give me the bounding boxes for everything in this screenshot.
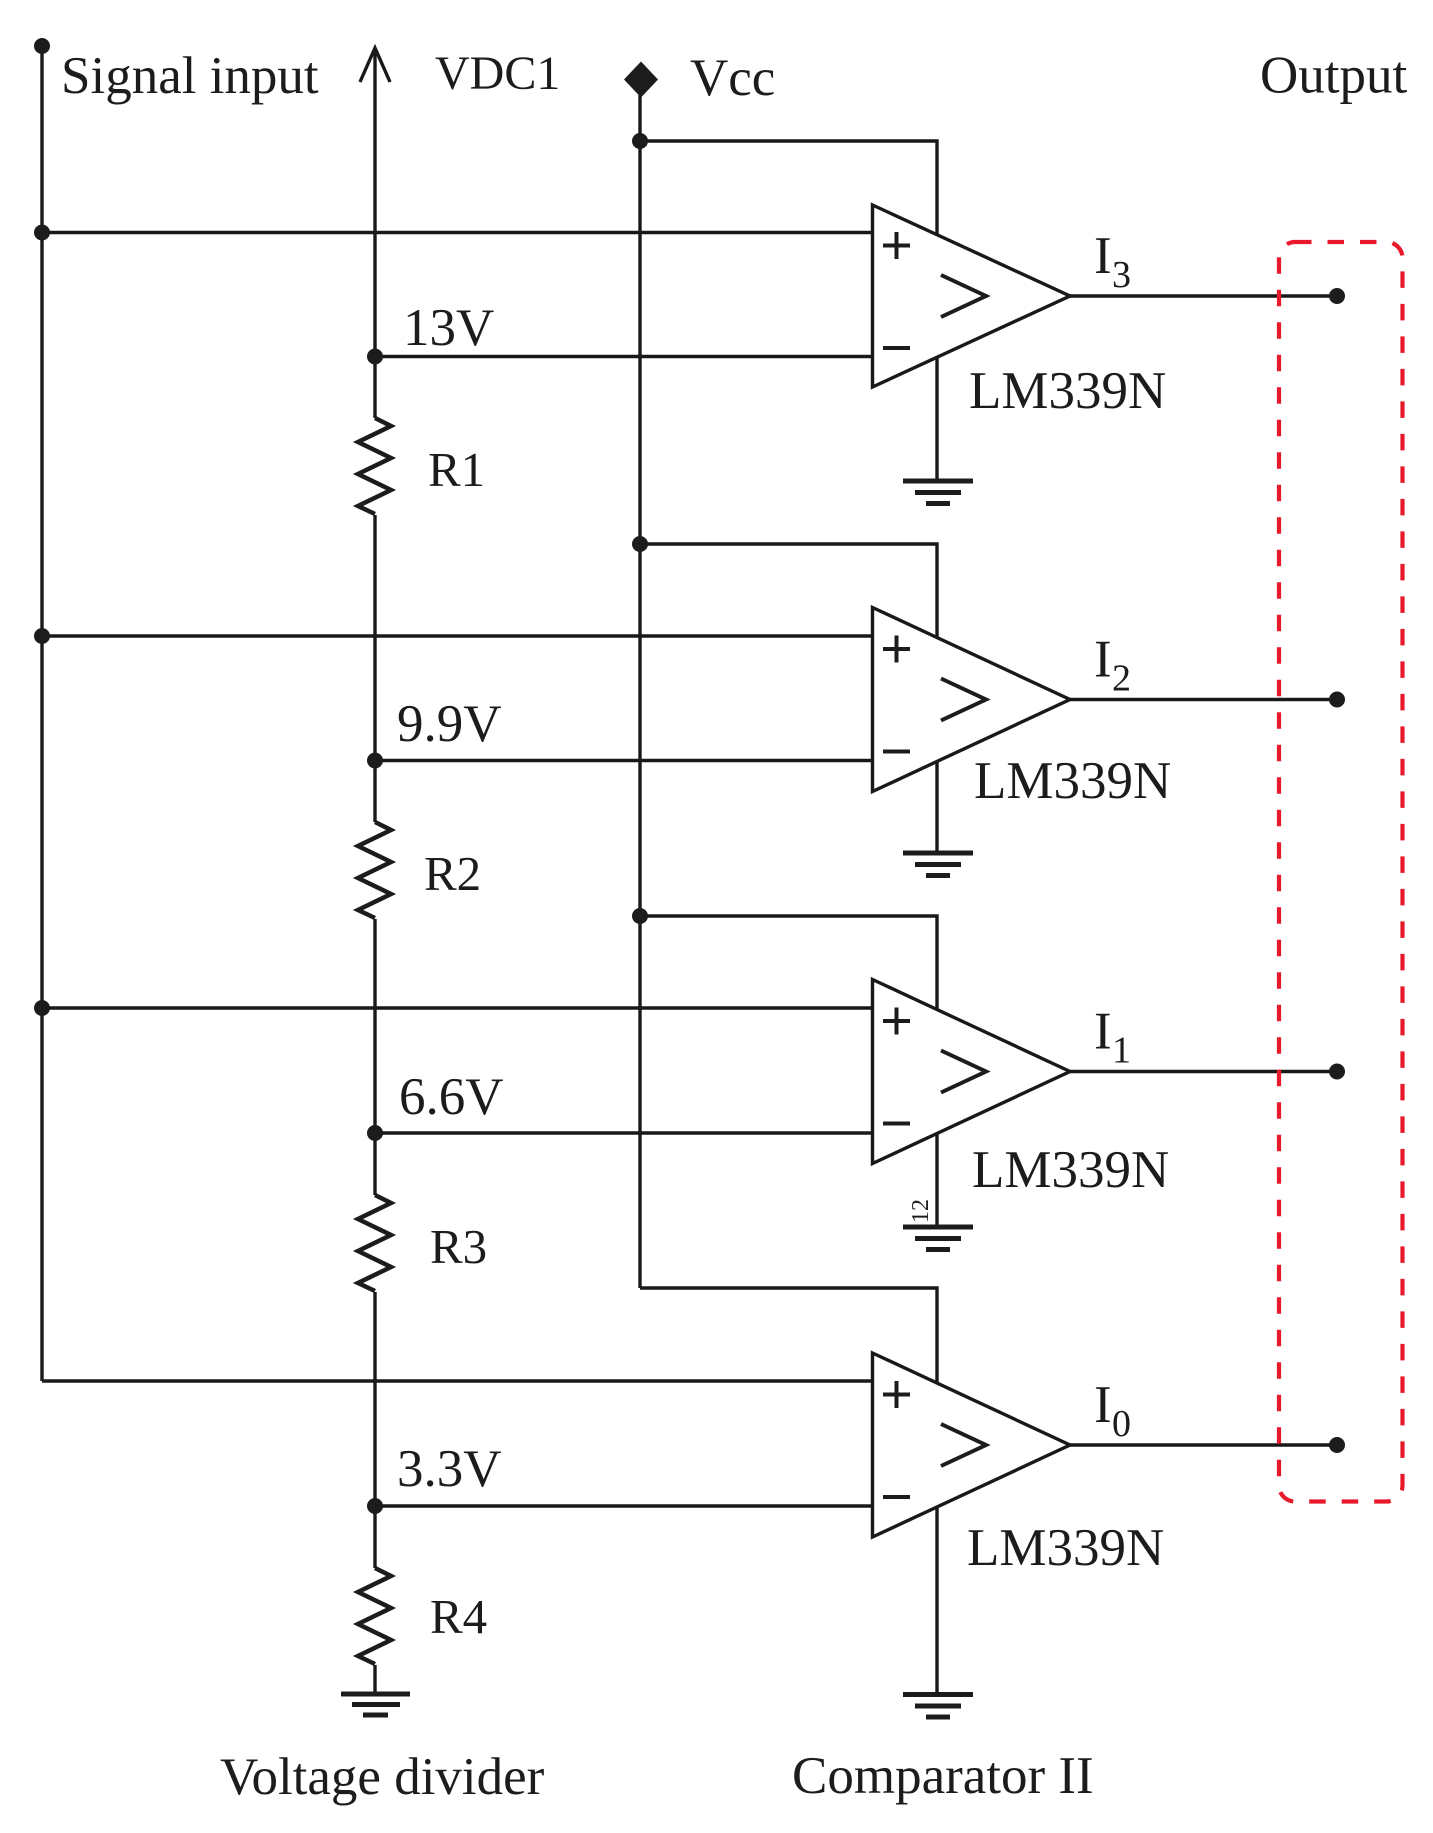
wire node 3.3V to U4 - input [375, 1504, 873, 1507]
svg-text:Output: Output [1260, 47, 1408, 105]
node junction Vcc/U2 [632, 536, 648, 552]
wire divider R2-R3 segment [373, 919, 376, 1195]
wire U4 output [1070, 1443, 1337, 1446]
op-amp U2 + pin mark [883, 636, 910, 663]
svg-text:I: I [1094, 631, 1112, 689]
node junction Vcc/U1 [632, 133, 648, 149]
svg-text:VDC1: VDC1 [435, 47, 560, 100]
svg-text:LM339N: LM339N [972, 1141, 1169, 1199]
wire Vcc branch to U2 power [640, 544, 937, 637]
svg-text:LM339N: LM339N [974, 752, 1171, 810]
wire signal to comparator U4 + input [42, 1379, 873, 1382]
resistor R1 [358, 418, 391, 514]
op-amp U2 comparator chevron [941, 679, 986, 721]
wire U4 ground stem [935, 1508, 938, 1695]
svg-text:LM339N: LM339N [967, 1519, 1164, 1577]
svg-text:3.3V: 3.3V [397, 1440, 502, 1498]
svg-text:I: I [1094, 1003, 1112, 1061]
node 9.9V junction [367, 753, 383, 769]
node junction signal/U3+ [34, 1000, 50, 1016]
wire U2 output [1070, 698, 1337, 701]
arrowhead VDC1 [360, 48, 390, 82]
svg-text:LM339N: LM339N [969, 362, 1166, 420]
node 3.3V junction [367, 1498, 383, 1514]
wire divider top segment with VDC1 arrow shaft [373, 48, 376, 418]
op-amp U4 - pin mark [883, 1495, 910, 1499]
svg-text:R3: R3 [430, 1219, 487, 1274]
wire divider R1-R2 segment [373, 515, 376, 822]
svg-text:0: 0 [1112, 1403, 1131, 1445]
svg-text:R1: R1 [428, 442, 485, 497]
op-amp U3 comparator chevron [941, 1051, 986, 1093]
svg-text:Voltage divider: Voltage divider [220, 1748, 545, 1806]
svg-text:6.6V: 6.6V [399, 1068, 504, 1126]
op-amp U3 (LM339N, I1) triangle [873, 980, 1071, 1164]
resistor R2 [358, 822, 391, 918]
node output I2 terminal [1329, 692, 1345, 708]
svg-text:I: I [1094, 227, 1112, 285]
node junction signal/U1+ [34, 225, 50, 241]
wire U1 output [1070, 294, 1337, 297]
wire Vcc branch to U4 power [640, 1288, 937, 1383]
ground R4 (divider) [341, 1694, 410, 1715]
svg-text:2: 2 [1112, 658, 1131, 700]
svg-text:3: 3 [1112, 254, 1131, 296]
svg-text:Vcc: Vcc [690, 49, 775, 107]
wire divider R3-R4 segment [373, 1292, 376, 1568]
wire signal to comparator U1 + input [42, 231, 873, 234]
op-amp U1 (LM339N, I3) triangle [873, 205, 1071, 387]
wire Vcc branch to U1 power [640, 141, 937, 235]
resistor R3 [358, 1195, 391, 1291]
output group red dashed box [1279, 242, 1403, 1502]
svg-text:R2: R2 [424, 846, 481, 901]
node junction Vcc/U3 [632, 908, 648, 924]
op-amp U4 (LM339N, I0) triangle [873, 1353, 1071, 1537]
node Vcc supply diamond [624, 62, 658, 98]
wire node 13V to U1 - input [375, 355, 873, 358]
wire signal-input vertical bus [40, 46, 43, 1381]
svg-text:Signal input: Signal input [61, 47, 319, 105]
svg-text:1: 1 [1112, 1030, 1131, 1072]
node signal input terminal [34, 38, 50, 54]
svg-text:I: I [1094, 1376, 1112, 1434]
wire node 9.9V to U2 - input [375, 759, 873, 762]
svg-text:R4: R4 [430, 1589, 487, 1644]
wire signal to comparator U3 + input [42, 1006, 873, 1009]
op-amp U3 + pin mark [883, 1008, 910, 1035]
node output I1 terminal [1329, 1064, 1345, 1080]
wire divider R4 to ground [373, 1665, 376, 1694]
wire Vcc branch to U3 power [640, 916, 937, 1009]
ground U2 [903, 853, 973, 876]
op-amp U3 - pin mark [883, 1122, 910, 1126]
op-amp U1 + pin mark [883, 232, 910, 259]
op-amp U1 - pin mark [883, 346, 910, 350]
svg-text:12: 12 [908, 1199, 934, 1223]
op-amp U4 + pin mark [883, 1381, 910, 1408]
svg-text:9.9V: 9.9V [397, 695, 502, 753]
node 13V junction [367, 349, 383, 365]
wire signal to comparator U2 + input [42, 634, 873, 637]
wire U3 ground stem [935, 1134, 938, 1228]
resistor R4 [358, 1568, 391, 1664]
node output I3 terminal [1329, 288, 1345, 304]
op-amp U2 - pin mark [883, 750, 910, 754]
wire U2 ground stem [935, 762, 938, 854]
wire node 6.6V to U3 - input [375, 1131, 873, 1134]
wire Vcc vertical bus [638, 95, 641, 1288]
ground U3 [903, 1227, 973, 1250]
ground U4 [903, 1695, 973, 1718]
op-amp U4 comparator chevron [941, 1424, 986, 1466]
op-amp U2 (LM339N, I2) triangle [873, 608, 1071, 792]
node junction signal/U2+ [34, 628, 50, 644]
wire U3 output [1070, 1070, 1337, 1073]
wire U1 ground stem [935, 357, 938, 481]
node output I0 terminal [1329, 1437, 1345, 1453]
svg-text:Comparator II: Comparator II [792, 1747, 1094, 1805]
svg-text:13V: 13V [403, 299, 494, 357]
node 6.6V junction [367, 1125, 383, 1141]
ground U1 [903, 481, 973, 504]
op-amp U1 comparator chevron [941, 275, 986, 317]
